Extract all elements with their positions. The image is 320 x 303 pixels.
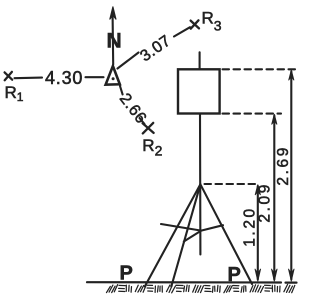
svg-text:R1: R1: [5, 83, 24, 104]
reference mark R3 cross: [191, 20, 199, 28]
extension dashed line from beacon top: [223, 68, 298, 70]
north arrow shaft: [112, 16, 115, 65]
tie line to R3 lower segment: [118, 53, 139, 69]
station triangle: [106, 66, 120, 85]
svg-text:2.69: 2.69: [275, 145, 292, 186]
svg-text:3.07: 3.07: [137, 32, 174, 65]
svg-text:R2: R2: [142, 136, 162, 159]
tie line to R1 right segment: [86, 76, 104, 78]
beacon box: [178, 69, 220, 113]
station center dot: [112, 77, 115, 80]
mast pole above beacon: [199, 52, 201, 69]
svg-text:P: P: [120, 263, 133, 285]
svg-text:P: P: [228, 264, 241, 286]
tie line to R1 left segment: [15, 77, 43, 80]
svg-text:R3: R3: [202, 9, 222, 34]
tie line to R2 lower segment: [140, 118, 145, 124]
ground hatching: [107, 284, 295, 292]
extension dashed line from beacon bottom: [223, 113, 282, 115]
extension dashed line from tripod apex: [205, 183, 260, 185]
reference mark R2 cross: [143, 123, 154, 133]
dimension line 2.09: [273, 116, 275, 280]
svg-text:2.66: 2.66: [116, 91, 150, 128]
tie line to R2 upper segment: [120, 86, 123, 94]
north arrowhead: [110, 7, 116, 20]
tie line to R3 upper segment: [174, 27, 190, 36]
ground line: [87, 281, 297, 284]
dimension line 1.20: [257, 186, 259, 280]
reference mark R1 cross: [5, 72, 13, 80]
svg-text:2.09: 2.09: [256, 182, 273, 223]
svg-text:4.30: 4.30: [45, 68, 83, 88]
svg-text:N: N: [107, 30, 122, 53]
tripod brace left: [161, 224, 201, 231]
dimension line 2.69: [290, 72, 292, 280]
tripod leg right: [200, 184, 252, 284]
mast pole below beacon: [199, 114, 201, 255]
tripod brace diagonal: [184, 231, 201, 242]
tripod brace right: [201, 225, 223, 230]
tripod leg middle: [171, 184, 200, 286]
tripod leg left: [145, 184, 201, 286]
